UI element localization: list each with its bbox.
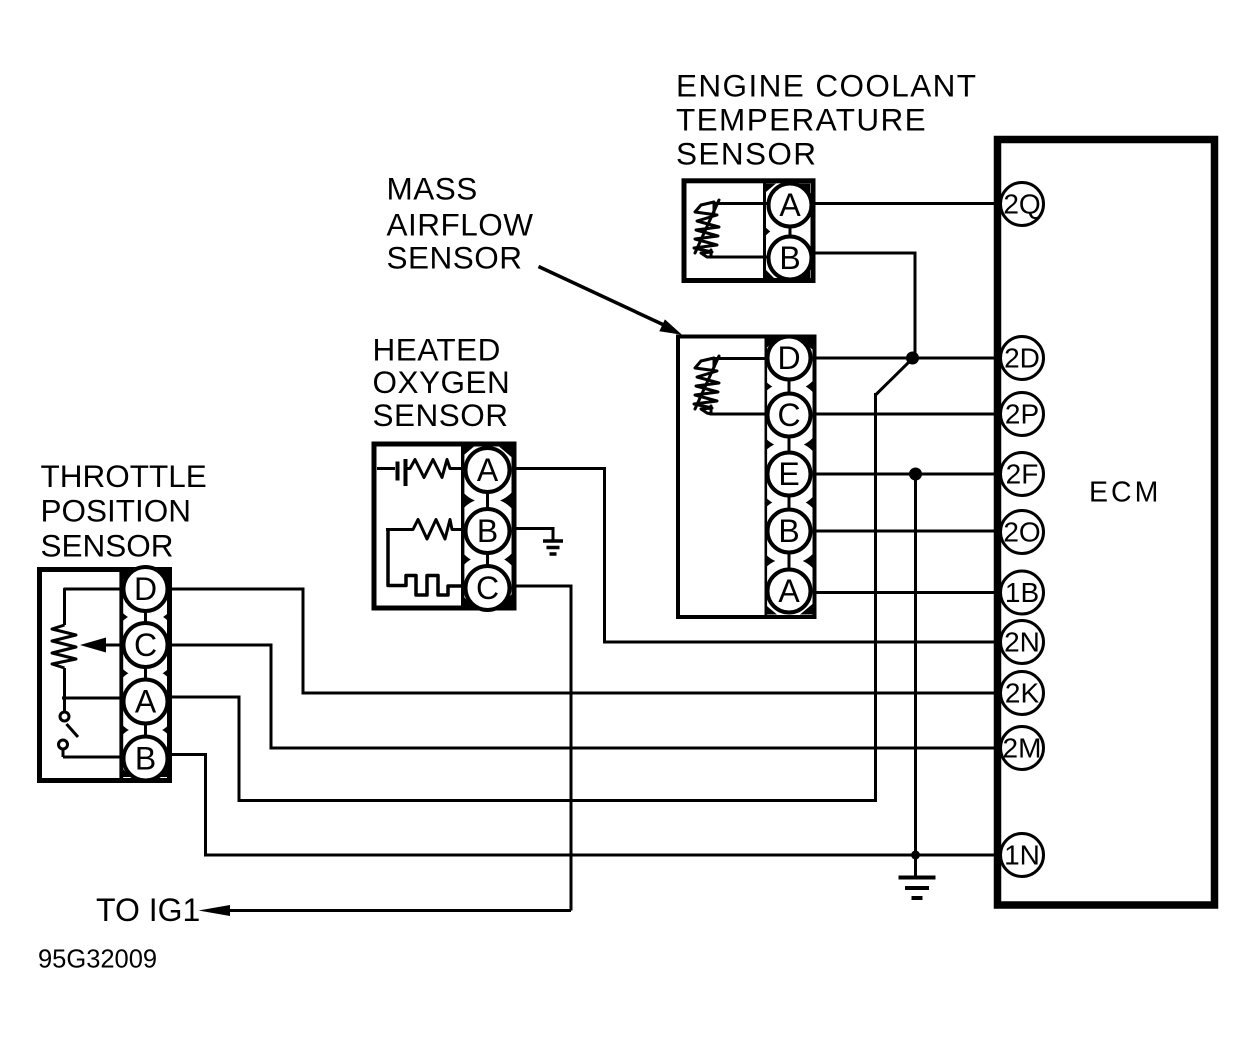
label throttle position sensor — [41, 458, 207, 564]
svg-text:2O: 2O — [1003, 517, 1040, 548]
pin C MAF — [768, 394, 811, 437]
svg-text:TO IG1: TO IG1 — [96, 892, 200, 928]
pin B TPS — [124, 737, 168, 781]
svg-text:95G32009: 95G32009 — [38, 946, 157, 974]
connector strip MAF — [756, 325, 822, 624]
box coolant sensor — [684, 181, 813, 281]
pin A MAF — [768, 570, 811, 613]
pin B MAF — [768, 510, 811, 553]
svg-text:SENSOR: SENSOR — [387, 240, 523, 276]
wire TPS A to vertical branch — [168, 697, 877, 801]
pin 2M ECM — [1001, 727, 1044, 770]
svg-text:C: C — [134, 627, 157, 663]
svg-text:TEMPERATURE: TEMPERATURE — [676, 102, 927, 138]
svg-text:ECM: ECM — [1089, 477, 1161, 509]
node junction dot at 2F — [909, 468, 922, 481]
pin link coolant A-B — [789, 226, 792, 237]
svg-text:C: C — [777, 397, 800, 433]
connector divider coolant — [763, 183, 810, 278]
label heated oxygen sensor — [373, 332, 511, 434]
wire vertical 2F node to ground — [914, 474, 917, 877]
pin 1N ECM — [1001, 834, 1044, 877]
svg-text:2D: 2D — [1004, 343, 1040, 374]
wire MAF C to ECM 2P — [810, 413, 1002, 416]
node junction dot at 1N crossing — [911, 851, 920, 860]
pin 2P ECM — [1001, 393, 1044, 436]
label TO IG1 — [96, 892, 200, 928]
connector strip TPS — [113, 556, 179, 792]
svg-text:OXYGEN: OXYGEN — [373, 364, 511, 400]
box TPS — [40, 570, 170, 781]
svg-text:2K: 2K — [1005, 678, 1040, 709]
wire HO2S C down — [514, 586, 571, 911]
wire MAF B to ECM 2O — [810, 530, 1002, 533]
svg-text:B: B — [135, 741, 156, 777]
wire MAF D to ECM 2D — [810, 357, 1002, 360]
svg-text:HEATED: HEATED — [373, 332, 501, 368]
heater element at pin C — [388, 531, 466, 595]
wire MAF A to ECM 1B — [810, 591, 1002, 594]
svg-text:B: B — [778, 513, 799, 549]
pin E MAF — [768, 453, 811, 496]
node junction dot at 2D — [906, 352, 919, 365]
connector divider TPS — [120, 571, 168, 778]
pin A TPS — [124, 680, 168, 724]
pin links HO2S — [486, 492, 489, 566]
ground symbol at ECM bottom — [899, 878, 936, 899]
svg-text:2P: 2P — [1005, 399, 1039, 430]
svg-text:ENGINE COOLANT: ENGINE COOLANT — [676, 68, 977, 104]
svg-text:A: A — [477, 452, 499, 488]
svg-text:D: D — [134, 571, 157, 607]
pin 2F ECM — [1001, 453, 1044, 496]
svg-text:2M: 2M — [1003, 733, 1042, 764]
sensor cell and resistor at pin A — [377, 459, 466, 486]
svg-text:C: C — [476, 570, 499, 606]
connector strip coolant — [757, 172, 823, 291]
pin C TPS — [124, 623, 168, 667]
connector divider MAF — [765, 338, 813, 615]
svg-text:SENSOR: SENSOR — [41, 528, 174, 564]
pin A HO2S — [466, 448, 510, 492]
box HO2S — [374, 444, 514, 608]
wire HO2S A to ECM 2N — [514, 469, 1002, 643]
label engine coolant temperature sensor — [676, 68, 977, 172]
svg-text:SENSOR: SENSOR — [373, 397, 509, 433]
wire HO2S B to ground — [514, 529, 553, 541]
box MAF sensor — [678, 337, 815, 618]
svg-text:B: B — [477, 513, 498, 549]
svg-text:SENSOR: SENSOR — [676, 136, 817, 172]
wire TPS C to ECM 2M — [168, 645, 1002, 748]
svg-text:1N: 1N — [1004, 840, 1040, 871]
ground symbol near HO2S B — [543, 541, 563, 554]
wire vertical branch to TPS A — [874, 393, 877, 801]
thermistor MAF — [694, 356, 768, 414]
pin 2N ECM — [1001, 621, 1044, 664]
pin links TPS — [144, 610, 147, 738]
svg-text:B: B — [779, 240, 800, 276]
svg-text:A: A — [135, 684, 157, 720]
wire TPS D to ECM 2K — [168, 589, 1002, 693]
pin D MAF — [768, 337, 811, 380]
wiper arrow TPS — [80, 638, 124, 653]
svg-text:MASS: MASS — [387, 171, 478, 207]
wire TPS B to ECM 1N — [168, 755, 1002, 856]
svg-text:2Q: 2Q — [1003, 189, 1040, 220]
svg-text:E: E — [778, 456, 799, 492]
wire TO IG1 — [199, 905, 572, 916]
pin 1B ECM — [1001, 571, 1044, 614]
pin 2D ECM — [1001, 337, 1044, 380]
thermistor coolant — [694, 200, 769, 257]
wire diagonal from node 2D — [876, 360, 912, 395]
wire MAF E to ECM 2F — [810, 473, 1002, 476]
label 95G32009 — [38, 946, 157, 974]
pin links MAF — [788, 380, 791, 571]
pin A coolant — [769, 184, 812, 227]
svg-text:2F: 2F — [1006, 459, 1039, 490]
ECM box — [998, 140, 1215, 906]
pin B coolant — [769, 237, 812, 280]
pin B HO2S — [466, 509, 510, 553]
resistor at pin B — [386, 520, 466, 540]
potentiometer TPS — [52, 589, 124, 698]
wire coolant B to node at 2D — [813, 253, 915, 358]
label mass airflow sensor — [387, 171, 534, 276]
connector strip HO2S — [455, 437, 521, 621]
pin D TPS — [124, 567, 168, 611]
connector divider HO2S — [461, 446, 512, 606]
svg-text:D: D — [777, 340, 800, 376]
svg-text:POSITION: POSITION — [41, 493, 192, 529]
svg-text:1B: 1B — [1005, 577, 1039, 608]
wire coolant A to ECM 2Q — [810, 202, 1002, 205]
pin 2K ECM — [1001, 672, 1044, 715]
pin C HO2S — [466, 566, 510, 610]
switch TPS — [59, 698, 125, 757]
pin 2Q ECM — [1001, 183, 1044, 226]
svg-text:AIRFLOW: AIRFLOW — [387, 207, 534, 243]
svg-text:A: A — [779, 187, 801, 223]
svg-text:THROTTLE: THROTTLE — [41, 458, 207, 494]
svg-text:A: A — [778, 573, 800, 609]
svg-text:2N: 2N — [1004, 627, 1040, 658]
arrow mass airflow pointer — [539, 267, 683, 335]
pin 2O ECM — [1001, 511, 1044, 554]
